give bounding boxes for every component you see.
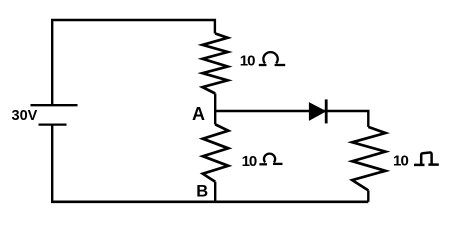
wire R3 bottom lead to bottom rail: [367, 190, 369, 201]
svg-text:10: 10: [242, 153, 257, 170]
wire R1 bottom lead to node A: [214, 94, 216, 112]
battery V1 bottom plate (short, -): [39, 123, 67, 125]
svg-text:10: 10: [393, 152, 409, 169]
wire bottom rail: node B net: [51, 201, 368, 204]
resistor R2 (10 ohm, middle) zigzag: [203, 124, 229, 181]
ohm symbol for R3 (square omega): [414, 152, 439, 164]
svg-text:10: 10: [240, 52, 255, 69]
diode D1 triangle (anode): [309, 103, 325, 120]
wire R2 top lead from node A: [214, 110, 216, 125]
svg-text:A: A: [192, 104, 205, 124]
resistor R1 (10 ohm, top) zigzag: [203, 34, 228, 94]
ohm symbol for R2 (small omega): [259, 154, 282, 165]
wire R2 bottom lead to node B: [214, 182, 216, 202]
diode D1 cathode bar: [325, 99, 328, 123]
battery V1 top plate (long, +): [31, 104, 78, 106]
resistor R3 (10 ohm, right) zigzag: [352, 127, 385, 190]
wire left: battery - down to bottom rail: [51, 125, 53, 202]
wire node A horizontal to right branch: [215, 111, 368, 127]
svg-text:30V: 30V: [12, 108, 38, 124]
svg-text:B: B: [196, 183, 208, 201]
ohm symbol for R1 (round omega): [259, 52, 285, 65]
wire top: battery + to resistor R1 top: [51, 19, 215, 105]
